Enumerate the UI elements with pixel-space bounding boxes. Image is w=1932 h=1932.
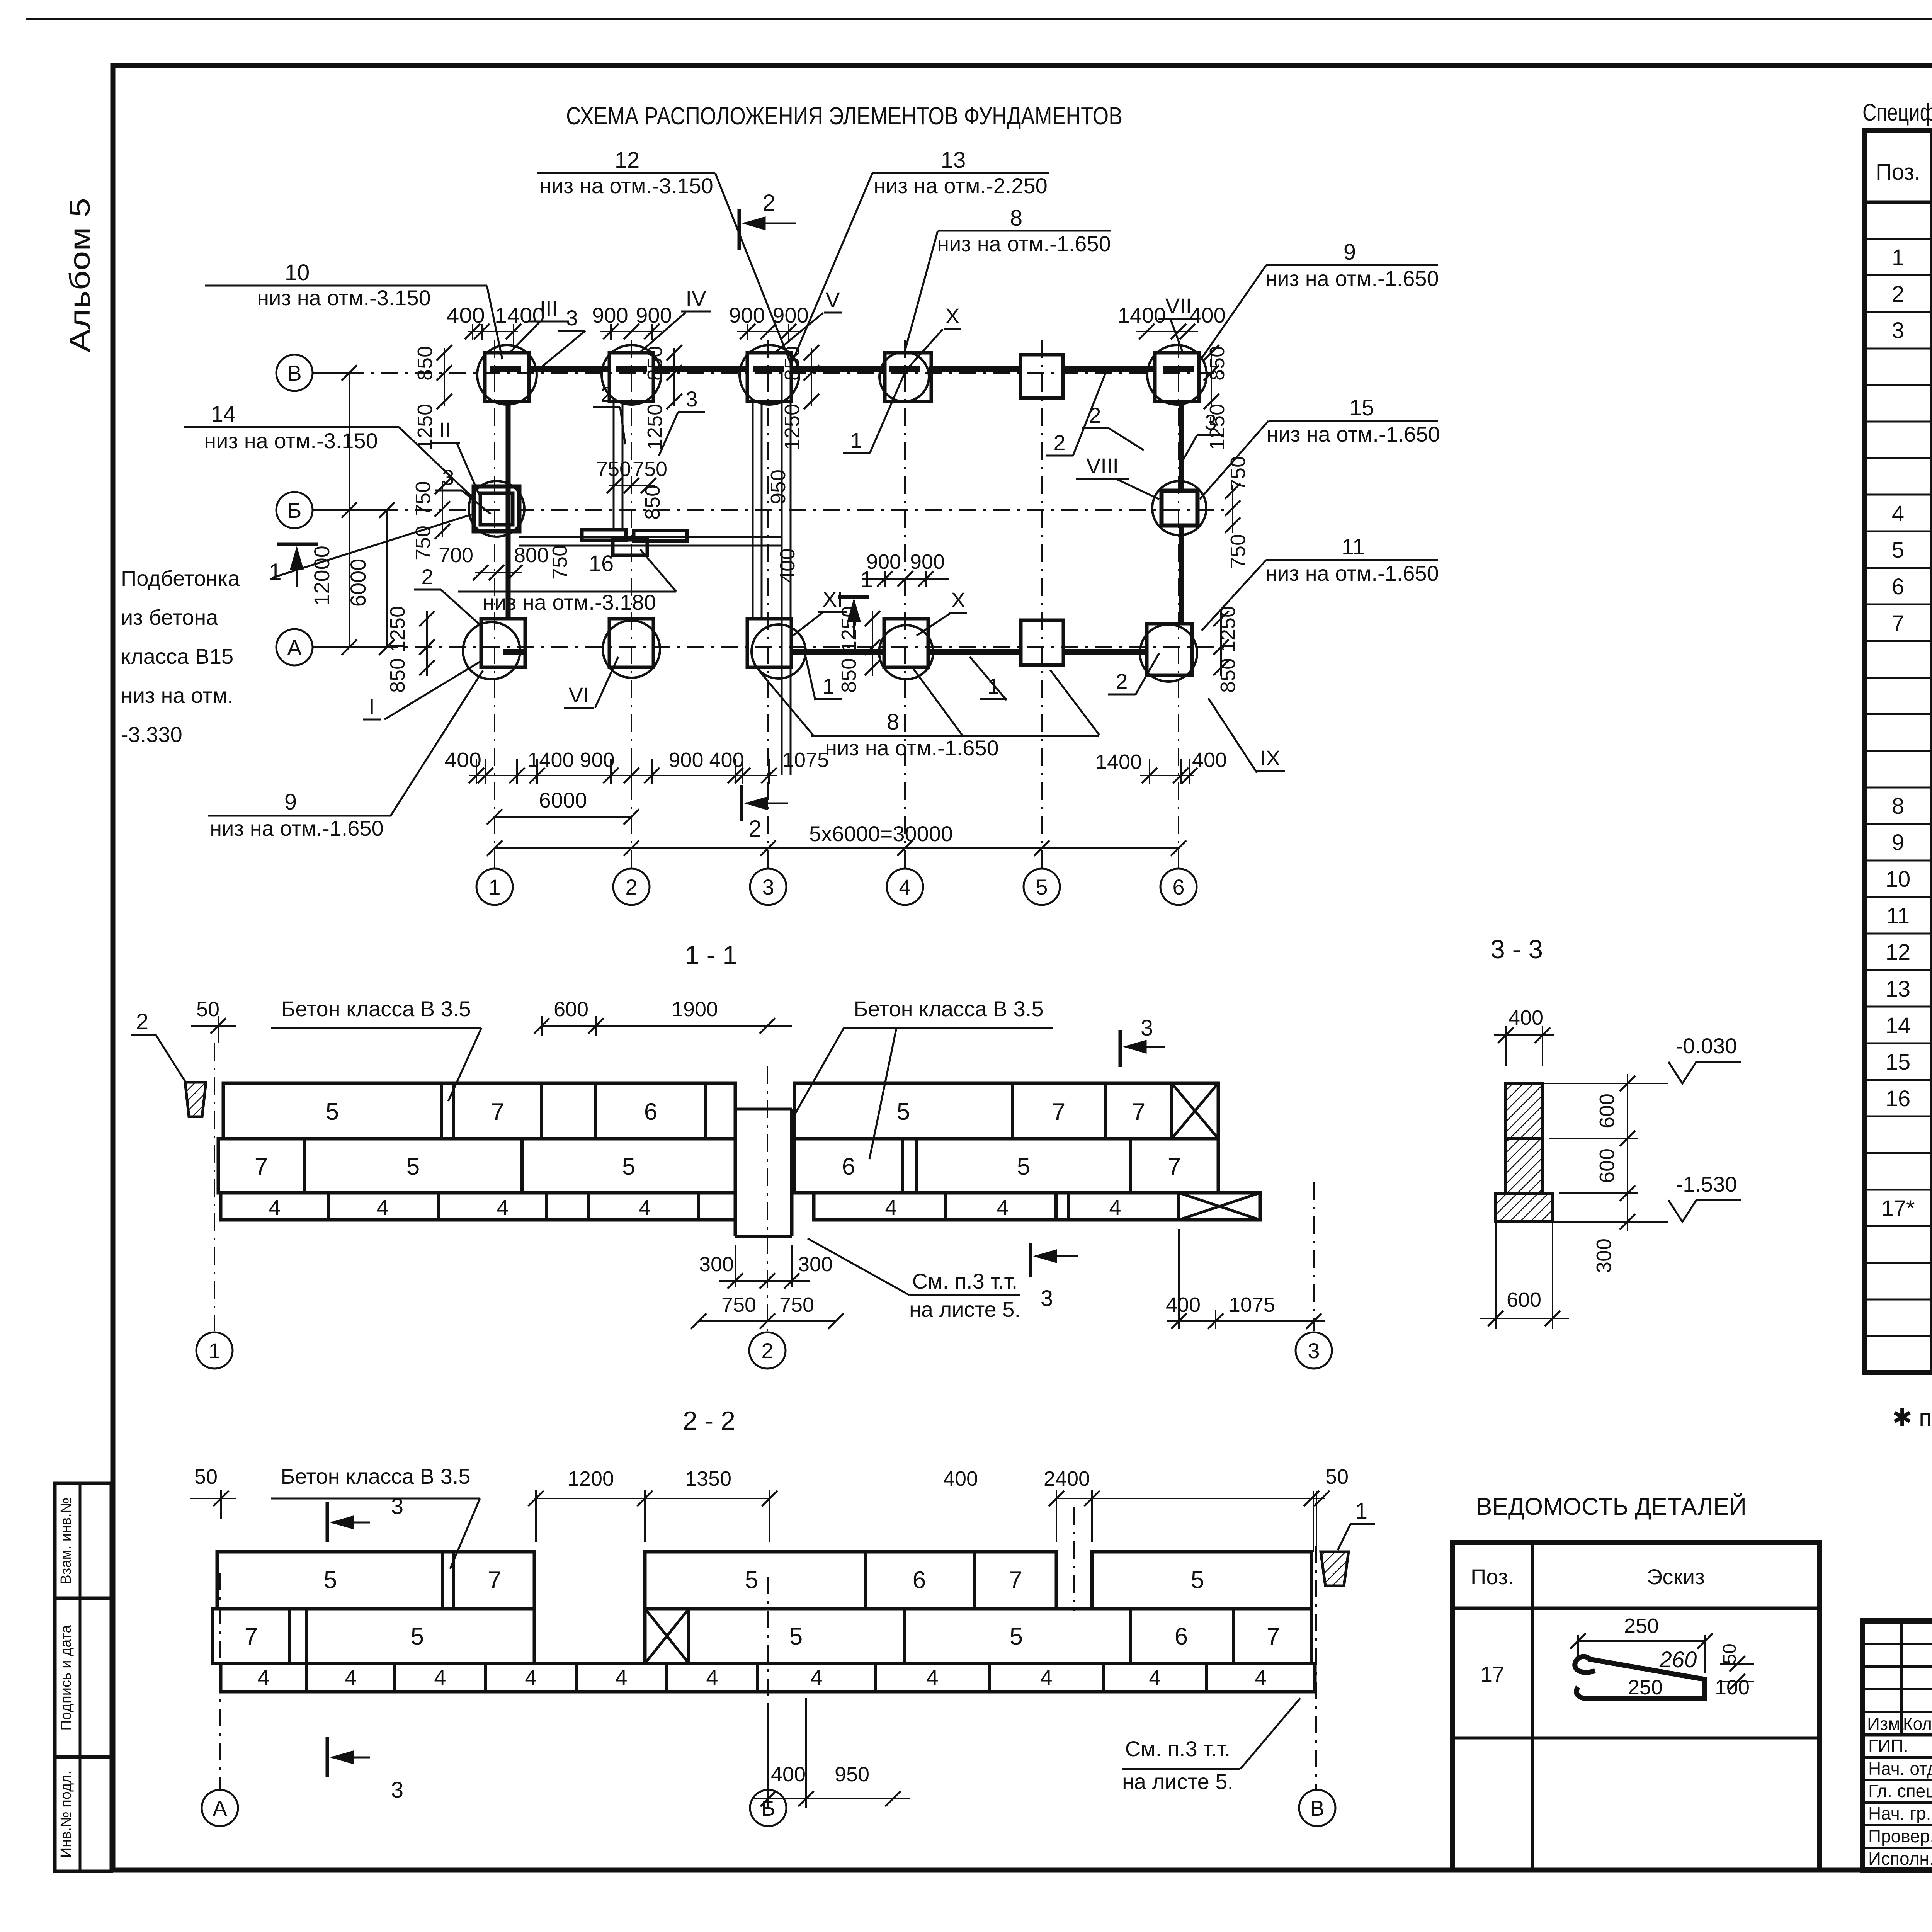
svg-text:4: 4 [1040, 1665, 1052, 1689]
svg-text:низ на отм.-1.650: низ на отм.-1.650 [1265, 561, 1439, 585]
hatched beam end mark 1 [1321, 1552, 1349, 1586]
svg-text:3: 3 [1204, 410, 1216, 434]
svg-text:12000: 12000 [310, 546, 334, 606]
svg-text:7: 7 [1009, 1567, 1022, 1594]
svg-text:4: 4 [810, 1665, 822, 1689]
section 2-2 block courses [217, 1552, 534, 1609]
title block frame [1862, 1621, 1932, 1870]
svg-text:IX: IX [1260, 746, 1281, 770]
svg-text:14: 14 [1886, 1013, 1911, 1038]
svg-text:1: 1 [269, 559, 281, 585]
foundation block row В col 5 [1020, 355, 1063, 398]
svg-text:7: 7 [488, 1567, 501, 1594]
svg-text:5: 5 [324, 1567, 337, 1594]
svg-text:16: 16 [589, 551, 614, 576]
svg-text:5: 5 [1036, 875, 1048, 899]
element 16 [582, 530, 626, 540]
svg-text:3: 3 [1041, 1286, 1053, 1311]
svg-text:400: 400 [771, 1763, 806, 1786]
section cut 3-3 marks in 1-1 [1119, 1030, 1122, 1067]
svg-text:400: 400 [446, 303, 485, 327]
svg-text:900: 900 [910, 550, 945, 573]
svg-text:5: 5 [1017, 1153, 1030, 1180]
svg-text:900: 900 [636, 303, 672, 327]
svg-text:300: 300 [699, 1253, 734, 1276]
svg-text:-0.030: -0.030 [1676, 1034, 1737, 1058]
svg-text:4: 4 [376, 1195, 388, 1219]
svg-text:850: 850 [1216, 658, 1240, 693]
svg-text:850: 850 [1206, 346, 1229, 381]
svg-text:XI: XI [823, 587, 843, 611]
foundation Фм row В col 4 [885, 353, 931, 401]
foundation beams row В [527, 366, 609, 372]
foundation Фм row А col 2 (VI) [609, 619, 653, 667]
svg-text:7: 7 [1892, 611, 1904, 636]
svg-text:9: 9 [1892, 830, 1904, 855]
svg-text:1400: 1400 [1095, 750, 1142, 774]
svg-text:4: 4 [257, 1665, 269, 1689]
svg-text:✱ поз. 17 смотрите ведомос: ✱ поз. 17 смотрите ведомость деталей [1892, 1405, 1932, 1431]
svg-text:250: 250 [1624, 1614, 1659, 1638]
svg-text:2400: 2400 [1044, 1467, 1090, 1490]
svg-text:1200: 1200 [568, 1467, 614, 1490]
svg-text:12: 12 [615, 148, 640, 173]
svg-text:4: 4 [706, 1665, 718, 1689]
svg-text:Изм.: Изм. [1867, 1714, 1905, 1734]
svg-text:12: 12 [1886, 940, 1911, 965]
svg-text:3: 3 [1892, 318, 1904, 343]
svg-text:Бетон класса В 3.5: Бетон класса В 3.5 [854, 997, 1043, 1021]
svg-text:4: 4 [497, 1195, 509, 1219]
svg-text:4: 4 [899, 875, 911, 899]
svg-text:Инв.№ подл.: Инв.№ подл. [58, 1770, 74, 1858]
svg-text:2: 2 [1892, 282, 1904, 307]
svg-text:7: 7 [1132, 1099, 1145, 1125]
foundation Фм row А col 4 (X) [884, 619, 928, 667]
bottom dimension chain [469, 775, 777, 776]
column axis 3 [767, 340, 769, 869]
svg-text:300: 300 [1592, 1238, 1616, 1273]
svg-text:2: 2 [421, 565, 433, 589]
svg-text:1: 1 [822, 674, 834, 698]
svg-text:1400 900: 1400 900 [527, 748, 614, 772]
svg-text:Бетон класса В 3.5: Бетон класса В 3.5 [281, 997, 471, 1021]
svg-text:4: 4 [639, 1195, 651, 1219]
foundation Фм row А col 6 (IX) [1147, 624, 1192, 675]
svg-text:1: 1 [1892, 245, 1904, 270]
svg-text:4: 4 [345, 1665, 357, 1689]
svg-text:10: 10 [285, 260, 310, 285]
svg-text:850: 850 [386, 658, 409, 693]
svg-text:VI: VI [569, 683, 589, 707]
svg-text:750: 750 [633, 457, 667, 481]
svg-text:2: 2 [1053, 430, 1065, 455]
section cut 1-1 left mark [277, 543, 318, 546]
svg-text:900: 900 [729, 303, 765, 327]
svg-text:13: 13 [1886, 976, 1911, 1002]
svg-text:низ на отм.-3.150: низ на отм.-3.150 [257, 286, 430, 310]
svg-text:1250: 1250 [781, 404, 804, 450]
svg-text:5: 5 [1191, 1567, 1204, 1594]
svg-text:класса В15: класса В15 [121, 644, 233, 668]
svg-text:Нач. отд.: Нач. отд. [1868, 1759, 1932, 1779]
svg-text:600: 600 [554, 998, 588, 1021]
svg-text:В: В [287, 361, 301, 385]
svg-text:низ на отм.-1.650: низ на отм.-1.650 [825, 736, 998, 760]
svg-text:16: 16 [1886, 1086, 1911, 1111]
thin beam outline lines [613, 401, 615, 529]
svg-text:50: 50 [196, 998, 219, 1021]
svg-text:4: 4 [885, 1195, 897, 1219]
svg-text:Кол.уч: Кол.уч [1903, 1714, 1932, 1734]
svg-text:400: 400 [1189, 303, 1225, 327]
section 1-1 block courses right [794, 1083, 1218, 1139]
svg-text:7: 7 [491, 1099, 504, 1125]
svg-text:1400: 1400 [1118, 303, 1166, 327]
svg-text:1 - 1: 1 - 1 [685, 940, 737, 970]
svg-text:3: 3 [391, 1777, 403, 1803]
svg-text:низ на отм.-1.650: низ на отм.-1.650 [210, 816, 383, 840]
svg-text:2: 2 [762, 190, 775, 216]
svg-text:1250: 1250 [1216, 606, 1240, 652]
svg-text:-3.330: -3.330 [121, 722, 182, 747]
svg-text:9: 9 [1344, 240, 1356, 265]
svg-text:II: II [439, 418, 451, 442]
svg-text:Альбом 5: Альбом 5 [64, 198, 96, 352]
svg-text:В: В [1310, 1796, 1324, 1820]
svg-text:VIII: VIII [1086, 454, 1119, 478]
svg-text:3: 3 [1141, 1015, 1153, 1041]
svg-text:17: 17 [1480, 1662, 1504, 1686]
svg-text:400: 400 [943, 1467, 978, 1490]
svg-text:750: 750 [721, 1293, 756, 1316]
foundation Фм row В col 1 [485, 353, 529, 401]
svg-text:5: 5 [1892, 537, 1904, 563]
svg-text:4: 4 [1892, 501, 1904, 526]
svg-text:13: 13 [941, 148, 966, 173]
svg-text:700: 700 [439, 544, 473, 567]
svg-text:Подбетонка: Подбетонка [121, 566, 240, 590]
svg-text:950: 950 [767, 469, 790, 504]
svg-text:950: 950 [835, 1763, 869, 1786]
svg-text:Эскиз: Эскиз [1647, 1565, 1705, 1589]
svg-text:3: 3 [442, 465, 454, 490]
svg-text:1250: 1250 [643, 404, 667, 450]
svg-text:600: 600 [1507, 1288, 1541, 1311]
section cut 3-3 marks in 2-2 [326, 1502, 329, 1542]
svg-text:2 - 2: 2 - 2 [683, 1406, 735, 1435]
svg-text:600: 600 [1595, 1094, 1619, 1128]
svg-text:3: 3 [762, 875, 774, 899]
svg-text:См. п.3 т.т.: См. п.3 т.т. [1125, 1736, 1231, 1761]
foundation Фм row В col 3 [747, 353, 791, 401]
svg-text:7: 7 [255, 1153, 268, 1180]
svg-text:4: 4 [525, 1665, 537, 1689]
svg-text:низ на отм.-3.150: низ на отм.-3.150 [204, 429, 378, 453]
svg-text:750: 750 [412, 481, 435, 516]
svg-text:низ на отм.-1.650: низ на отм.-1.650 [937, 231, 1111, 256]
svg-text:4: 4 [615, 1665, 627, 1689]
svg-text:6000: 6000 [539, 788, 587, 812]
svg-text:8: 8 [1892, 794, 1904, 819]
svg-text:3: 3 [391, 1494, 403, 1519]
dimensions 400 1075 [1167, 1320, 1325, 1322]
svg-text:750: 750 [1226, 534, 1250, 569]
svg-text:300: 300 [798, 1253, 833, 1276]
svg-text:850: 850 [643, 346, 667, 381]
svg-text:5: 5 [326, 1099, 339, 1125]
svg-text:3: 3 [1308, 1338, 1320, 1363]
svg-text:-1.530: -1.530 [1676, 1172, 1737, 1196]
svg-text:Гл. спец.: Гл. спец. [1868, 1781, 1932, 1801]
svg-text:1: 1 [1355, 1498, 1367, 1524]
svg-text:2: 2 [748, 816, 761, 842]
svg-text:Поз.: Поз. [1471, 1565, 1514, 1589]
svg-text:100: 100 [1715, 1676, 1750, 1699]
hatched beam end mark 2 [185, 1082, 206, 1117]
svg-text:Провер.: Провер. [1868, 1826, 1932, 1846]
svg-text:2: 2 [600, 382, 612, 406]
svg-text:6: 6 [913, 1567, 926, 1594]
svg-text:4: 4 [269, 1195, 281, 1219]
svg-text:5: 5 [1010, 1623, 1023, 1650]
column axis 1 [494, 340, 495, 869]
svg-text:9: 9 [284, 789, 297, 815]
foundation Фм row А col 1 (I) [481, 619, 525, 667]
foundation Фм row Б col 1 (II) [474, 486, 519, 531]
column axis 6 [1178, 340, 1179, 869]
svg-text:А: А [287, 635, 302, 660]
row axis А [276, 629, 313, 665]
dimension chains row Б [442, 481, 443, 537]
svg-text:900: 900 [772, 303, 808, 327]
svg-text:400: 400 [1192, 748, 1227, 772]
section 2-2 axis circles [219, 1573, 221, 1789]
svg-text:11: 11 [1886, 903, 1910, 929]
svg-text:См. п.3 т.т.: См. п.3 т.т. [912, 1269, 1018, 1293]
svg-text:50: 50 [194, 1465, 218, 1488]
detail 17 rebar sketch [1575, 1656, 1704, 1698]
svg-text:низ на отм.-1.650: низ на отм.-1.650 [1266, 422, 1440, 446]
dimension 5x6000=30000 [495, 847, 1179, 849]
svg-text:Нач. гр.: Нач. гр. [1868, 1803, 1931, 1823]
svg-text:1075: 1075 [1229, 1293, 1275, 1316]
svg-text:Поз.: Поз. [1876, 160, 1920, 185]
svg-text:IV: IV [686, 286, 707, 311]
svg-text:4: 4 [997, 1195, 1009, 1219]
specification table grid [1864, 130, 1932, 1372]
svg-text:на листе 5.: на листе 5. [909, 1297, 1020, 1321]
svg-text:низ на отм.-3.180: низ на отм.-3.180 [482, 590, 656, 614]
svg-text:900: 900 [592, 303, 628, 327]
section cut 2-2 bottom mark [740, 785, 743, 821]
svg-text:6: 6 [1172, 875, 1184, 899]
svg-text:1350: 1350 [685, 1467, 731, 1490]
svg-text:260: 260 [1659, 1647, 1697, 1672]
dimensions 400 950 [767, 1704, 769, 1808]
svg-text:2: 2 [761, 1338, 773, 1363]
svg-text:3: 3 [685, 387, 697, 411]
svg-text:50: 50 [1325, 1465, 1349, 1488]
foundation Фм row В col 6 (VII) [1155, 353, 1199, 401]
svg-text:низ на отм.-2.250: низ на отм.-2.250 [874, 173, 1047, 198]
svg-text:5: 5 [789, 1623, 803, 1650]
svg-text:низ на отм.-1.650: низ на отм.-1.650 [1265, 266, 1439, 291]
svg-text:400: 400 [776, 548, 799, 583]
svg-text:1: 1 [860, 566, 873, 592]
svg-text:6000: 6000 [346, 559, 370, 607]
sheet border top line [26, 18, 1932, 20]
svg-text:850: 850 [641, 485, 664, 520]
svg-text:8: 8 [1010, 206, 1022, 231]
svg-text:7: 7 [245, 1623, 258, 1650]
svg-text:6: 6 [1175, 1623, 1188, 1650]
svg-text:ГИП.: ГИП. [1868, 1736, 1908, 1756]
column axis 4 [904, 340, 906, 869]
svg-text:5: 5 [411, 1623, 424, 1650]
dimension chains row А [426, 611, 428, 676]
svg-text:10: 10 [1886, 867, 1911, 892]
svg-text:1: 1 [850, 428, 862, 452]
section cut 2-2 top mark [738, 209, 741, 250]
svg-text:17*: 17* [1881, 1196, 1915, 1221]
svg-text:X: X [945, 304, 959, 328]
elevation marks -0.030 -1.530 [1668, 1062, 1696, 1083]
svg-text:600: 600 [1595, 1148, 1619, 1183]
svg-text:V: V [825, 287, 840, 312]
left stamp boxes [55, 1483, 111, 1871]
svg-text:1: 1 [488, 875, 500, 899]
svg-text:5: 5 [897, 1099, 910, 1125]
svg-text:Исполн.: Исполн. [1868, 1849, 1932, 1869]
svg-text:X: X [951, 588, 965, 612]
svg-text:3: 3 [566, 306, 578, 330]
svg-text:5: 5 [406, 1153, 420, 1180]
svg-text:ВЕДОМОСТЬ ДЕТАЛЕЙ: ВЕДОМОСТЬ ДЕТАЛЕЙ [1476, 1493, 1747, 1520]
svg-text:750: 750 [548, 545, 571, 580]
svg-text:1: 1 [208, 1338, 220, 1363]
svg-text:6: 6 [1892, 574, 1904, 599]
svg-text:6: 6 [644, 1099, 657, 1125]
foundation Фм row В col 2 [609, 353, 653, 401]
svg-text:50: 50 [1719, 1643, 1740, 1664]
svg-text:5: 5 [622, 1153, 635, 1180]
svg-text:400: 400 [1509, 1006, 1543, 1029]
svg-text:I: I [369, 694, 375, 719]
svg-text:2: 2 [1089, 403, 1101, 427]
dimension chains row В [468, 331, 518, 332]
foundation Фм row А col 3 (XI) [747, 619, 791, 667]
vertical beams [506, 401, 511, 619]
section cut 1-1 right mark [838, 595, 869, 599]
svg-text:15: 15 [1349, 395, 1374, 420]
svg-text:2: 2 [1116, 669, 1128, 694]
svg-text:1075: 1075 [782, 748, 829, 772]
row axis В [276, 355, 313, 391]
svg-text:VII: VII [1165, 294, 1192, 318]
svg-text:400: 400 [1166, 1293, 1201, 1316]
svg-text:низ на отм.-3.150: низ на отм.-3.150 [539, 173, 713, 198]
svg-text:2: 2 [625, 875, 637, 899]
svg-text:6: 6 [842, 1153, 855, 1180]
svg-text:11: 11 [1342, 534, 1365, 560]
svg-text:на листе 5.: на листе 5. [1122, 1769, 1233, 1794]
foundation beams row А [791, 649, 884, 655]
svg-text:800: 800 [514, 544, 549, 567]
svg-text:А: А [213, 1796, 227, 1820]
svg-text:750: 750 [596, 457, 631, 481]
svg-text:4: 4 [1255, 1665, 1267, 1689]
svg-text:5х6000=30000: 5х6000=30000 [809, 821, 953, 846]
svg-text:из бетона: из бетона [121, 605, 218, 629]
svg-text:3 - 3: 3 - 3 [1490, 935, 1543, 964]
svg-text:850: 850 [413, 346, 437, 381]
svg-text:Взам. инв.№: Взам. инв.№ [58, 1498, 74, 1585]
svg-text:750: 750 [1226, 456, 1250, 491]
svg-text:4: 4 [434, 1665, 446, 1689]
svg-text:4: 4 [1149, 1665, 1161, 1689]
section 1-1 block courses left [223, 1083, 735, 1139]
svg-text:900 400: 900 400 [668, 748, 744, 772]
svg-text:750: 750 [779, 1293, 814, 1316]
svg-text:низ на отм.: низ на отм. [121, 683, 233, 707]
svg-text:1900: 1900 [672, 998, 718, 1021]
svg-text:2: 2 [136, 1009, 148, 1034]
svg-text:Спецификация к схеме распол: Спецификация к схеме расположения элемен… [1862, 99, 1932, 126]
svg-text:7: 7 [1052, 1099, 1065, 1125]
section 3-3 dimensions [1494, 1034, 1554, 1036]
row axis Б [276, 492, 313, 528]
section 1-1 axis circles [214, 1043, 215, 1331]
svg-text:7: 7 [1168, 1153, 1181, 1180]
foundation block row А col 5 [1021, 620, 1063, 665]
section 1-1 pit at axis 2 [734, 1109, 737, 1236]
dimension 6000 [495, 816, 631, 818]
svg-text:СХЕМА РАСПОЛОЖЕНИЯ ЭЛЕМЕНТОВ: СХЕМА РАСПОЛОЖЕНИЯ ЭЛЕМЕНТОВ ФУНДАМЕНТОВ [566, 102, 1122, 130]
column axis 2 [631, 340, 632, 869]
foundation Фм row Б col 6 (VIII) [1162, 491, 1197, 526]
svg-text:850: 850 [837, 658, 861, 693]
svg-text:7: 7 [1267, 1623, 1280, 1650]
signature rows [1862, 1756, 1932, 1759]
svg-text:Бетон класса В 3.5: Бетон класса В 3.5 [281, 1464, 470, 1488]
svg-text:8: 8 [887, 709, 899, 735]
svg-text:4: 4 [926, 1665, 938, 1689]
section 3-3 hatched column [1506, 1083, 1543, 1138]
svg-text:14: 14 [211, 401, 236, 427]
svg-text:4: 4 [1109, 1195, 1121, 1219]
column axis 5 [1041, 340, 1043, 869]
dimension 12000/6000 [349, 373, 350, 647]
svg-text:250: 250 [1628, 1676, 1663, 1699]
svg-text:5: 5 [745, 1567, 758, 1594]
svg-text:15: 15 [1886, 1049, 1911, 1075]
svg-text:Б: Б [287, 498, 302, 522]
svg-text:Подпись и дата: Подпись и дата [58, 1624, 74, 1730]
svg-text:III: III [540, 296, 558, 321]
